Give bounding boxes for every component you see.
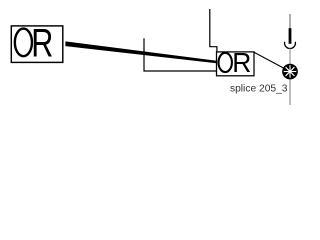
wire: thin diagonal from OR2 top-right corner to splice — [254, 52, 290, 71]
wire: vertical stub at x=144 down to horizontal run into OR2 bottom-left — [144, 38, 217, 71]
label OR2 text "OR" — [219, 53, 232, 72]
component box OR1 — [11, 26, 63, 63]
label OR1 text "OR" — [15, 29, 32, 57]
hook/ring terminal symbol: open cup arc — [285, 42, 296, 49]
svg-text:R: R — [232, 46, 251, 78]
wire: gray wire from splice down off towards bottom — [289, 79, 291, 105]
wire: thin gray lead-in at top of hook symbol — [289, 14, 291, 29]
svg-text:splice 205_3: splice 205_3 — [230, 84, 288, 95]
wire: thick tapered harness from box OR1 to box OR2 — [65, 41, 216, 63]
wire: gray wire from cup down to splice — [289, 49, 291, 64]
hook/ring terminal symbol: thick stem — [289, 28, 292, 44]
component box OR2 — [217, 52, 255, 76]
wire: vertical drop at x=209 from top turning right into OR2 top-left — [210, 9, 217, 53]
splice 205_3 symbol: filled circle with white star — [282, 64, 298, 80]
svg-text:R: R — [31, 20, 53, 65]
